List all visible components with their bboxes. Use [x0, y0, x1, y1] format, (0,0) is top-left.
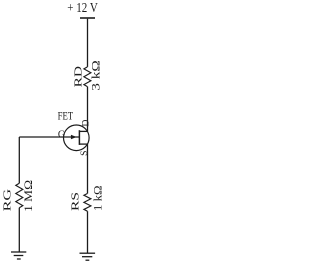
label RS	[71, 192, 82, 211]
svg-text:3 kΩ: 3 kΩ	[90, 60, 102, 91]
value 1 MΩ	[23, 180, 35, 212]
svg-text:FET: FET	[58, 110, 74, 122]
svg-text:RS: RS	[71, 192, 82, 211]
wire RS to ground	[87, 211, 89, 253]
node +12V supply label	[67, 1, 98, 16]
value 3 kΩ	[90, 60, 102, 91]
gate arrowhead	[71, 135, 77, 140]
ground left	[11, 252, 26, 259]
ground right	[80, 253, 96, 260]
wire RG to ground	[18, 208, 20, 252]
resistor RD	[84, 67, 91, 87]
pin label D	[80, 120, 91, 127]
svg-text:1 kΩ: 1 kΩ	[92, 186, 104, 212]
wire source to RS	[87, 144, 89, 193]
svg-text:RG: RG	[3, 188, 14, 211]
svg-text:G: G	[58, 130, 65, 141]
svg-text:S: S	[79, 151, 90, 156]
wire supply to RD	[87, 19, 89, 67]
svg-text:RD: RD	[73, 65, 84, 87]
svg-text:+ 12 V: + 12 V	[67, 1, 98, 16]
resistor RG	[16, 183, 23, 207]
power terminal bar +12V	[80, 17, 95, 19]
transistor FET (JFET) envelope circle	[64, 125, 90, 151]
wire RD to drain	[87, 87, 89, 132]
label RG	[3, 188, 14, 211]
pin label S	[79, 151, 90, 156]
value 1 kΩ	[92, 186, 104, 212]
label RD	[73, 65, 84, 87]
source jog wire	[79, 143, 87, 145]
gate lead wire	[19, 136, 79, 138]
svg-text:D: D	[80, 120, 91, 127]
pin label G	[58, 130, 65, 141]
resistor RS	[84, 194, 91, 212]
label FET	[58, 110, 74, 122]
wire gate corner	[18, 137, 20, 183]
channel bar	[78, 130, 80, 145]
drain jog wire	[79, 130, 87, 132]
svg-text:1 MΩ: 1 MΩ	[23, 180, 35, 212]
